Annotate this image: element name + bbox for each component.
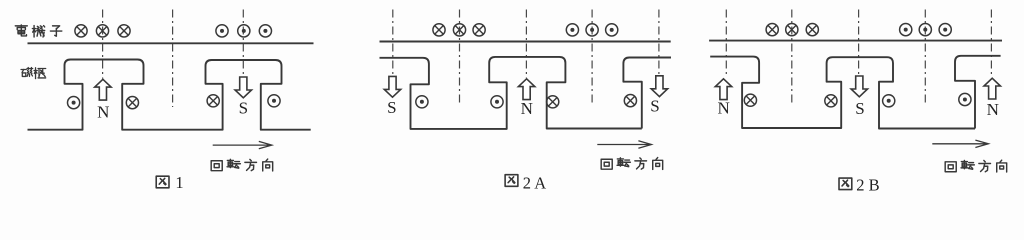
fig1 S-pole right dot symbol xyxy=(268,95,280,107)
fig1 armature coil dot xyxy=(216,25,228,37)
label 磁 (pole) xyxy=(21,67,33,76)
label 回 xyxy=(601,159,612,169)
fig1 armature coil cross xyxy=(75,25,87,37)
fig2A caption 図 xyxy=(505,175,518,187)
fig1 S-pole left cross symbol xyxy=(207,95,219,107)
label 電 (armature) xyxy=(15,25,27,36)
fig2A armature coil cross xyxy=(453,24,465,36)
svg-text:N: N xyxy=(521,99,533,118)
fig2B right pole center line xyxy=(990,10,992,78)
fig2A gap center line xyxy=(459,10,461,106)
fig2B armature coil cross xyxy=(786,24,798,36)
fig2A armature coil dot xyxy=(586,24,598,36)
label 方 xyxy=(245,159,257,170)
fig1 armature coil cross xyxy=(118,25,130,37)
fig1 N-pole right cross symbol xyxy=(126,97,138,109)
fig2B right partial pole cap xyxy=(955,56,1001,129)
fig2A rotation arrow xyxy=(597,141,651,148)
fig2B N-pole right cross symbol xyxy=(744,94,756,106)
fig1 caption 図 xyxy=(156,176,169,188)
fig2A right S flux arrow down xyxy=(651,76,667,97)
fig2B armature coil cross xyxy=(806,24,818,36)
label 方 xyxy=(635,158,647,169)
label 転 xyxy=(961,160,974,169)
svg-text:N: N xyxy=(987,100,999,119)
fig2B S flux arrow down xyxy=(851,76,867,97)
fig2A gap center line xyxy=(591,10,593,106)
fig2B armature coil dot xyxy=(919,24,931,36)
fig2B armature coil dot xyxy=(939,24,951,36)
fig2A right partial pole cap xyxy=(623,58,671,129)
fig2A mid pole center line xyxy=(525,10,527,79)
label 転 xyxy=(617,158,630,167)
fig2B right N flux arrow up xyxy=(984,78,1000,99)
fig2B gap center line xyxy=(924,10,926,105)
fig2B armature coil dot xyxy=(900,24,912,36)
fig1 armature coil cross xyxy=(96,25,108,37)
label 向 xyxy=(997,160,1007,172)
fig2B right N-pole dot symbol xyxy=(959,93,971,105)
fig1 N flux arrow up xyxy=(95,79,111,100)
fig2A left pole center line xyxy=(392,10,394,78)
svg-text:N: N xyxy=(97,102,109,121)
fig2A right S-pole cross symbol xyxy=(624,95,636,107)
label 回 xyxy=(211,161,222,171)
fig2B gap center line xyxy=(791,10,793,105)
fig2A armature coil dot xyxy=(606,24,618,36)
fig1 N-pole left dot symbol xyxy=(68,97,80,109)
fig2A left+mid pole pieces and yoke outline xyxy=(380,57,642,129)
label 向 xyxy=(263,159,273,171)
label 極 xyxy=(34,68,46,79)
svg-text:1: 1 xyxy=(175,173,183,192)
fig2A armature surface line xyxy=(380,41,671,43)
label 回 xyxy=(945,162,956,172)
fig1 armature coil dot xyxy=(259,25,271,37)
svg-text:2 B: 2 B xyxy=(856,176,879,195)
label 転 xyxy=(227,159,240,168)
fig2A N flux arrow up xyxy=(518,79,534,100)
svg-text:S: S xyxy=(650,96,659,115)
fig2B rotation arrow xyxy=(932,140,988,147)
svg-text:S: S xyxy=(387,98,396,117)
fig2B armature coil cross xyxy=(766,24,778,36)
svg-text:S: S xyxy=(239,99,248,118)
fig1 pole pieces and yoke outline xyxy=(28,60,311,130)
label 方 xyxy=(979,160,991,171)
fig2A right pole center line xyxy=(658,10,660,78)
fig2B armature surface line xyxy=(709,40,1002,42)
fig2B S-pole right dot symbol xyxy=(883,95,895,107)
fig2B left+mid pole pieces and yoke outline xyxy=(710,57,975,129)
fig2A S-pole right dot symbol xyxy=(416,96,428,108)
label 向 xyxy=(653,158,663,170)
fig2B mid pole center line xyxy=(858,10,860,78)
svg-text:N: N xyxy=(717,99,729,118)
fig2A N-pole left dot symbol xyxy=(491,96,503,108)
label 機 xyxy=(32,26,44,37)
fig2B caption 図 xyxy=(839,178,852,190)
fig1 right pole center line xyxy=(242,10,244,79)
fig2A N-pole right cross symbol xyxy=(547,96,559,108)
svg-text:2 A: 2 A xyxy=(523,173,546,192)
svg-text:S: S xyxy=(855,99,864,118)
fig1 armature coil dot xyxy=(238,25,250,37)
fig1 armature surface line xyxy=(28,42,314,44)
fig1 mid gap center line xyxy=(172,10,174,108)
fig2A armature coil cross xyxy=(433,24,445,36)
fig2B left pole center line xyxy=(725,10,727,78)
fig2A armature coil cross xyxy=(473,24,485,36)
fig2B S-pole left cross symbol xyxy=(825,95,837,107)
fig1 rotation arrow xyxy=(213,141,272,148)
fig2A left S flux arrow down xyxy=(384,76,400,97)
fig1 left pole center line xyxy=(102,10,104,79)
fig2B left N flux arrow up xyxy=(715,79,731,100)
label 子 xyxy=(50,26,61,36)
fig1 S flux arrow down xyxy=(235,77,251,98)
fig2A armature coil dot xyxy=(566,24,578,36)
